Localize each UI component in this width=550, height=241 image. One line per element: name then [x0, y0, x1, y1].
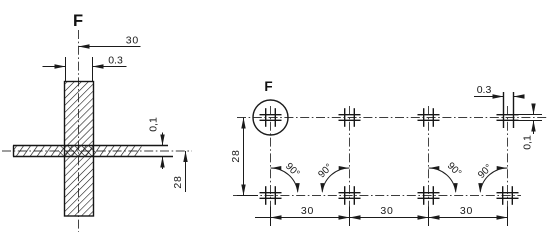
detail circle F: [253, 79, 288, 135]
column centerline 2: [349, 106, 351, 223]
svg-text:0.3: 0.3: [108, 55, 123, 67]
weld zone cross-hatch: [58, 146, 96, 157]
svg-text:30: 30: [460, 205, 473, 217]
column centerline 3: [428, 106, 430, 223]
dimension 0,1 (left figure): [148, 117, 165, 169]
svg-text:0,1: 0,1: [522, 135, 534, 150]
svg-text:30: 30: [126, 35, 139, 47]
top row centerline: [237, 117, 548, 119]
vertical plate centerline: [78, 30, 80, 232]
angle 90 deg arc (bay3 left): [429, 160, 464, 193]
spot weld symbol bottom 4: [497, 186, 519, 205]
svg-text:F: F: [73, 12, 83, 30]
angle 90 deg arc (bay1 right): [316, 162, 349, 193]
spot weld symbol top 3: [418, 108, 440, 127]
svg-text:F: F: [264, 79, 272, 94]
horizontal sheet outline: [13, 146, 173, 157]
spot weld symbol bottom 2: [339, 186, 361, 205]
horizontal sheet centerline: [2, 150, 192, 152]
svg-text:30: 30: [380, 205, 393, 217]
spot weld symbol top 1: [260, 108, 282, 127]
dimension 0,1 (right figure): [515, 104, 542, 150]
dimension 30 text (first bay): [301, 205, 314, 217]
spot weld symbol bottom 3: [418, 186, 440, 205]
dimension 30 text (third bay): [460, 205, 473, 217]
column centerline 4: [507, 106, 509, 223]
spot weld symbol bottom 1: [260, 186, 282, 205]
svg-text:0,1: 0,1: [148, 117, 160, 132]
angle 90 deg arc (bay3 right): [476, 162, 507, 193]
vertical plate outline: [65, 82, 94, 217]
dimension 28 (left figure): [172, 151, 188, 192]
spot weld symbol top 2: [339, 108, 361, 127]
angle 90 deg arc (bay1 left): [271, 161, 302, 193]
dimension 28 (right figure): [230, 118, 258, 196]
spot weld symbol top 4: [497, 92, 519, 128]
bottom row centerline: [233, 195, 521, 197]
dimension 30 text (second bay): [380, 205, 393, 217]
dimension chain line: [255, 207, 508, 227]
dimension 30 (left figure): [79, 35, 141, 49]
svg-text:0.3: 0.3: [477, 84, 492, 96]
column centerline 1: [270, 106, 272, 223]
svg-text:30: 30: [301, 205, 314, 217]
svg-text:28: 28: [172, 175, 184, 188]
dimension 0.3 (right figure): [474, 84, 525, 99]
dimension 0.3 (left figure): [43, 55, 127, 83]
label F (detail view, left figure): [73, 12, 83, 30]
svg-text:28: 28: [230, 149, 242, 162]
